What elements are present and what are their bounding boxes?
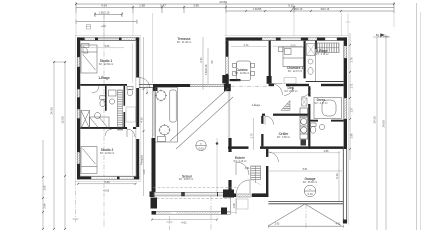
svg-text:+2.9: +2.9 (101, 25, 106, 28)
svg-text:3.10: 3.10 (307, 192, 313, 196)
svg-text:1.40: 1.40 (143, 169, 146, 174)
svg-text:2.41: 2.41 (199, 57, 203, 63)
svg-text:9.10: 9.10 (335, 173, 339, 179)
svg-text:4.54: 4.54 (101, 4, 107, 8)
svg-text:Srf : 4.59 m²: Srf : 4.59 m² (277, 136, 290, 139)
svg-text:14.36: 14.36 (50, 107, 54, 115)
svg-text:+0.05: +0.05 (103, 189, 110, 192)
svg-text:4.01: 4.01 (181, 221, 187, 225)
svg-text:1.98: 1.98 (232, 203, 236, 209)
svg-text:Srf : 4.37 m²: Srf : 4.37 m² (314, 102, 327, 105)
svg-text:3.81: 3.81 (245, 167, 250, 170)
svg-text:1.37: 1.37 (351, 107, 354, 112)
svg-text:1-Étage: 1-Étage (98, 75, 110, 80)
svg-text:1.98: 1.98 (351, 133, 354, 138)
svg-text:Srf : 12.07 m²: Srf : 12.07 m² (288, 70, 303, 73)
svg-text:Srf : 10.99 m²: Srf : 10.99 m² (235, 72, 250, 75)
svg-text:Srf : 12.84 m²: Srf : 12.84 m² (99, 63, 114, 66)
svg-text:Srf : 1.76 m²: Srf : 1.76 m² (315, 53, 328, 56)
svg-text:1.71: 1.71 (351, 83, 354, 88)
svg-text:2.88: 2.88 (324, 150, 329, 153)
svg-text:1.90/2.16: 1.90/2.16 (99, 11, 110, 15)
svg-text:20.86: 20.86 (219, 0, 227, 4)
svg-text:5.66: 5.66 (104, 180, 110, 184)
svg-text:1.50/2.16: 1.50/2.16 (204, 64, 208, 75)
svg-text:Srf : 2.13 m²: Srf : 2.13 m² (233, 160, 246, 163)
svg-text:Srf : 35.60 m²: Srf : 35.60 m² (303, 181, 318, 184)
svg-text:1.98/2.16: 1.98/2.16 (292, 7, 303, 11)
svg-text:12.50: 12.50 (61, 116, 65, 124)
svg-text:2.74: 2.74 (244, 44, 249, 47)
svg-text:1.47: 1.47 (160, 4, 166, 8)
svg-text:14.36: 14.36 (373, 116, 377, 124)
svg-text:4.91: 4.91 (336, 223, 341, 226)
svg-text:1.06: 1.06 (44, 185, 47, 190)
svg-text:Srf : 12.84 m²: Srf : 12.84 m² (100, 152, 115, 155)
svg-text:1.76: 1.76 (351, 57, 354, 62)
svg-text:1.60/95: 1.60/95 (253, 7, 262, 11)
svg-text:Pergola: Pergola (139, 155, 143, 165)
svg-text:Bg: Bg (376, 33, 380, 37)
svg-text:90/2.16: 90/2.16 (321, 7, 330, 11)
svg-text:1.88: 1.88 (139, 4, 145, 8)
svg-text:3.86: 3.86 (193, 4, 199, 8)
svg-text:5.81: 5.81 (303, 168, 308, 171)
svg-text:Srf : 44.87 m²: Srf : 44.87 m² (179, 178, 194, 181)
svg-text:14.00: 14.00 (382, 120, 386, 128)
svg-text:4.16: 4.16 (139, 117, 143, 123)
svg-text:Srf : 21.36 m²: Srf : 21.36 m² (177, 41, 192, 44)
svg-text:2.64: 2.64 (44, 203, 47, 208)
svg-text:5.86: 5.86 (105, 45, 110, 48)
svg-text:0.00: 0.00 (198, 146, 204, 150)
svg-text:2.93: 2.93 (275, 223, 280, 226)
svg-text:1.70: 1.70 (250, 133, 253, 138)
svg-text:Srf : 8.05 m²: Srf : 8.05 m² (284, 90, 297, 93)
svg-text:9.11: 9.11 (288, 4, 294, 8)
svg-text:2-Étage: 2-Étage (252, 104, 261, 107)
